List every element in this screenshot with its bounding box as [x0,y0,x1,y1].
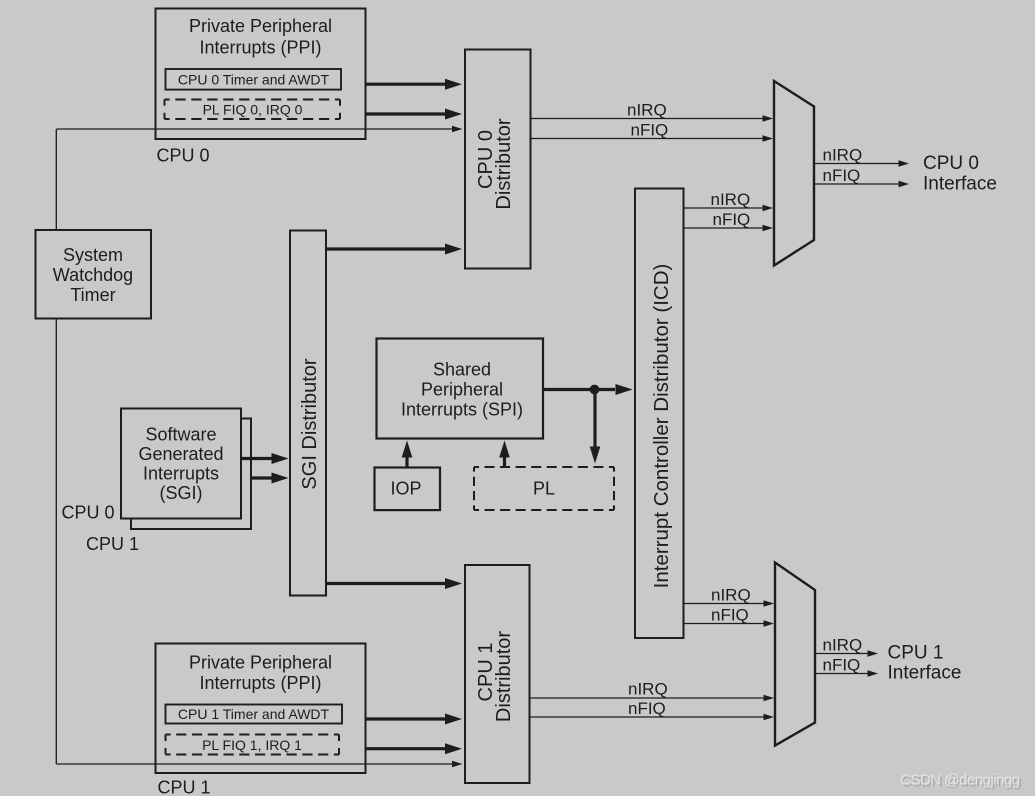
svg-text:IOP: IOP [390,479,421,499]
svg-text:System: System [63,245,123,265]
svg-text:CPU 0: CPU 0 [157,146,210,166]
svg-text:Interface: Interface [888,663,962,684]
svg-text:nIRQ: nIRQ [711,190,751,209]
svg-text:CPU 0 Timer and AWDT: CPU 0 Timer and AWDT [178,72,330,88]
svg-text:nIRQ: nIRQ [627,100,667,119]
svg-text:Generated: Generated [138,444,223,464]
svg-text:CSDN @dengjingg: CSDN @dengjingg [900,772,1020,789]
svg-text:Software: Software [145,425,216,445]
svg-text:CPU 1: CPU 1 [888,643,944,664]
svg-text:nFIQ: nFIQ [823,166,861,185]
svg-text:Private Peripheral: Private Peripheral [189,653,332,673]
svg-text:PL FIQ 0, IRQ 0: PL FIQ 0, IRQ 0 [203,102,303,118]
svg-text:Interrupts (PPI): Interrupts (PPI) [199,673,321,693]
svg-text:PL: PL [533,479,555,499]
svg-text:nIRQ: nIRQ [628,679,668,698]
svg-text:nFIQ: nFIQ [711,605,749,624]
svg-text:CPU 1: CPU 1 [158,778,211,796]
svg-text:nFIQ: nFIQ [713,210,751,229]
svg-text:CPU 1: CPU 1 [86,534,139,554]
svg-text:CPU 0: CPU 0 [923,153,979,174]
svg-text:nIRQ: nIRQ [711,585,751,604]
svg-text:Timer: Timer [70,285,115,305]
svg-text:nFIQ: nFIQ [631,120,669,139]
svg-text:nIRQ: nIRQ [823,635,863,654]
svg-text:Interrupt Controller Distribut: Interrupt Controller Distributor (ICD) [650,264,673,589]
svg-text:Private Peripheral: Private Peripheral [189,16,332,36]
svg-text:Interrupts (PPI): Interrupts (PPI) [199,38,321,58]
svg-text:CPU 1 Timer and AWDT: CPU 1 Timer and AWDT [178,706,330,722]
svg-text:Interrupts (SPI): Interrupts (SPI) [401,400,523,420]
svg-text:Distributor: Distributor [493,631,515,722]
svg-text:Distributor: Distributor [493,118,515,209]
svg-text:Interface: Interface [923,174,997,195]
svg-text:Shared: Shared [433,359,491,379]
svg-text:nIRQ: nIRQ [823,145,863,164]
svg-text:SGI Distributor: SGI Distributor [299,358,321,489]
svg-text:nFIQ: nFIQ [628,699,666,718]
svg-text:PL FIQ 1, IRQ 1: PL FIQ 1, IRQ 1 [202,737,302,753]
svg-text:Interrupts: Interrupts [143,464,219,484]
svg-text:Watchdog: Watchdog [53,265,133,285]
svg-text:nFIQ: nFIQ [823,655,861,674]
svg-text:CPU 0: CPU 0 [62,503,115,523]
svg-text:(SGI): (SGI) [160,483,203,503]
svg-text:Peripheral: Peripheral [421,379,503,399]
